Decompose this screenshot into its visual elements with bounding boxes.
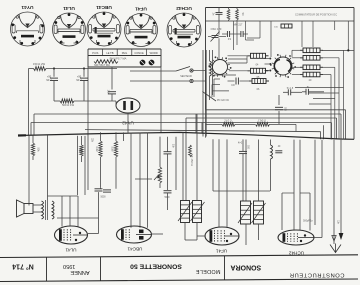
svg-text:0,3M: 0,3M — [95, 146, 98, 151]
svg-text:PU/S: PU/S — [92, 51, 98, 55]
svg-text:CONSTRUCTEUR: CONSTRUCTEUR — [289, 272, 344, 278]
svg-text:500pF 1n: 500pF 1n — [303, 221, 313, 223]
svg-text:500 Ω 1W: 500 Ω 1W — [62, 103, 74, 107]
svg-text:MF 2: MF 2 — [76, 80, 82, 82]
svg-text:SECTEUR: SECTEUR — [180, 75, 192, 78]
svg-text:150 Ω 2W: 150 Ω 2W — [33, 62, 45, 66]
svg-text:UBC41: UBC41 — [96, 4, 112, 10]
svg-text:MM 217: MM 217 — [234, 24, 243, 27]
svg-text:UL41: UL41 — [65, 248, 76, 253]
svg-text:UF41: UF41 — [215, 249, 227, 254]
svg-text:10n: 10n — [172, 144, 175, 149]
svg-text:SONORA: SONORA — [230, 264, 261, 271]
svg-text:CONCE: CONCE — [134, 51, 144, 55]
svg-text:K=2: K=2 — [238, 142, 243, 145]
svg-text:COMMUTATEUR DE POSITION OC: COMMUTATEUR DE POSITION OC — [295, 12, 337, 16]
svg-text:+50: +50 — [47, 76, 52, 79]
svg-text:M/F 5617 MA: M/F 5617 MA — [94, 63, 110, 67]
svg-text:SONORETTE 50: SONORETTE 50 — [130, 263, 182, 270]
svg-text:1950: 1950 — [63, 263, 75, 269]
svg-text:N° 714: N° 714 — [12, 263, 34, 271]
svg-text:UCH42: UCH42 — [176, 5, 192, 11]
svg-text:OSC 170: OSC 170 — [211, 27, 222, 31]
svg-text:5000: 5000 — [164, 197, 170, 199]
svg-text:UL41: UL41 — [63, 5, 75, 11]
svg-text:ANNEE: ANNEE — [70, 269, 90, 275]
svg-text:1,5n: 1,5n — [107, 90, 110, 95]
svg-text:PHG: PHG — [122, 51, 128, 55]
svg-text:5n 1,5: 5n 1,5 — [287, 88, 294, 90]
svg-text:17k5 Ω: 17k5 Ω — [258, 120, 266, 123]
svg-text:MF 2: MF 2 — [46, 80, 52, 82]
svg-text:UY41: UY41 — [21, 4, 33, 10]
svg-text:0,5M: 0,5M — [111, 146, 114, 151]
svg-text:UF41: UF41 — [135, 6, 147, 12]
svg-text:+50: +50 — [77, 76, 82, 79]
svg-text:MODELE: MODELE — [196, 268, 221, 274]
svg-text:2 k7 Ω: 2 k7 Ω — [224, 120, 231, 123]
svg-text:WORD: WORD — [150, 51, 158, 55]
svg-text:UBC41: UBC41 — [127, 247, 142, 252]
svg-text:LE TB: LE TB — [106, 51, 113, 55]
svg-text:PHILIPS 7 MA: PHILIPS 7 MA — [110, 57, 127, 61]
svg-text:CO: CO — [231, 84, 235, 87]
svg-text:PO GO OC: PO GO OC — [217, 99, 229, 102]
svg-text:5000: 5000 — [100, 197, 106, 199]
